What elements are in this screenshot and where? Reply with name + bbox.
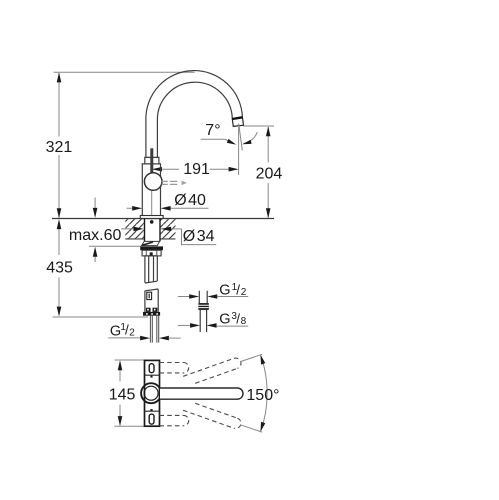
dashed stub lower [160,415,189,425]
D34 frame [182,229,217,245]
7 degree angled stream line [239,124,243,151]
svg-text:435: 435 [46,259,73,276]
7 degree vertical reference line [238,127,240,175]
counter bottom line [125,238,175,240]
shank through counter [145,219,161,242]
D40 left arrow [132,206,142,211]
dimension 204 bottom arrow [266,208,271,218]
7 degree leader arrow [227,139,236,145]
adapter lower tube [200,310,206,332]
shank bottom flange [143,312,160,316]
counter top line [52,218,274,220]
plan body dividers [145,375,160,411]
dimension 145 line [119,362,121,426]
handle ball [144,173,162,191]
handle direction indicator [162,181,178,184]
svg-text:Ø40: Ø40 [174,192,206,209]
plan body rect [145,360,160,426]
svg-text:150°: 150° [246,387,279,404]
dimension 191 left arrow [152,167,162,172]
svg-text:8: 8 [241,316,247,327]
adapter fitting [198,303,208,310]
max.60 lower arrow [94,256,96,262]
wedge washer [142,241,160,245]
dimension 191 right arrow [229,167,239,172]
plan view extension lines [115,360,148,426]
150 degree arc [261,355,267,431]
threaded shank tube [145,256,157,283]
G1/2 left underline [108,337,140,339]
145 top arrow [118,360,123,370]
centerline dot [150,220,154,224]
dimension 321 bottom arrow [57,208,62,218]
dimension D40 line [127,207,209,209]
204 extension line [243,125,274,127]
D34 right arrow [161,227,171,232]
spout inner arc [157,82,232,157]
G1/2 right dimension [178,296,190,298]
svg-text:2: 2 [129,328,135,339]
adapter upper tube [199,291,207,303]
svg-text:145: 145 [109,387,136,404]
145 bottom arrow [118,416,123,426]
plan axis ticks [150,376,152,378]
dimension D34 line [121,228,182,230]
435 top arrow [57,219,62,229]
svg-text:G: G [219,283,230,299]
check valve housing [145,289,158,312]
collar [145,157,159,164]
G1/2 left arrows [140,336,150,341]
svg-text:7°: 7° [205,122,220,139]
svg-text:321: 321 [46,139,73,156]
counter hatch left [125,219,144,239]
dimension 204 vertical line [267,127,269,218]
150 arc top arrow [261,355,266,365]
swivel axis extension upper [241,354,263,361]
dimension 435 line [58,229,60,308]
svg-text:191: 191 [183,161,210,178]
plan bottom slot [149,414,154,424]
435 bottom arrow [57,307,62,317]
aerator cut line [232,117,242,119]
max.60 extension line [89,245,141,247]
top extension line [54,71,195,73]
150 arc bottom arrow [261,422,266,432]
svg-text:204: 204 [256,166,283,183]
plan top slot [149,364,154,373]
svg-text:Ø34: Ø34 [183,228,215,245]
D34 left arrow [134,227,144,232]
7 degree arc arrow [242,140,251,145]
dimension 204 top arrow [266,126,271,136]
D40 right arrow [161,206,171,211]
base flange [140,216,163,219]
plan outer circle [141,383,161,403]
mounting nut band [140,246,163,250]
mounting nut step [142,250,161,256]
dashed swivel arm upper [183,357,242,387]
dimension 321 top arrow [57,72,62,82]
dashed swivel arm lower [183,400,242,430]
svg-text:2: 2 [241,287,247,298]
body centerline [151,190,153,220]
check valve insert [147,292,152,299]
connection hose [150,316,158,343]
G3/8 dimension [178,324,191,326]
max.60 upper arrow [94,198,96,209]
svg-text:G: G [219,312,230,328]
spout arm capsule [160,388,243,399]
valve dark blocks [146,308,151,312]
counter hatch right [160,219,175,239]
dashed stub upper [160,363,189,373]
spout outer arc [146,71,243,158]
svg-text:max.60: max.60 [69,227,122,244]
7 degree arc [244,132,258,143]
plan inner circle [144,386,158,400]
swivel axis extension lower [241,425,263,432]
435 bottom extension line [53,316,148,318]
lever pin [150,148,153,173]
7 degree leader line [201,139,234,144]
aerator tip [232,117,243,126]
svg-text:/: / [236,282,240,297]
body outline [142,164,160,216]
dimension 191 line [154,168,237,170]
dimension 321 vertical line [58,73,60,218]
